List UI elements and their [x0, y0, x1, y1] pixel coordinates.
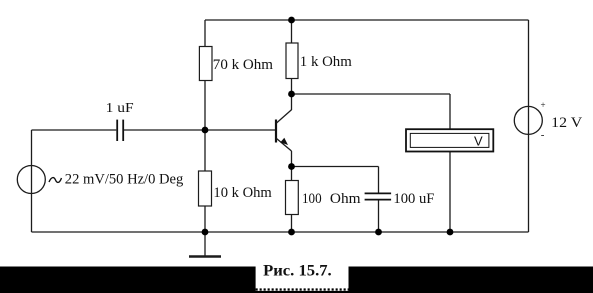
wire voltmeter vertical: [449, 94, 451, 232]
resistor R4 100: [286, 181, 361, 215]
node emitter junction: [288, 163, 295, 170]
svg-text:1 uF: 1 uF: [106, 101, 134, 116]
node voltmeter-bottom junction: [447, 229, 454, 236]
voltmeter V: [406, 129, 493, 151]
svg-text:+: +: [541, 100, 546, 110]
svg-text:22 mV/50 Hz/0 Deg: 22 mV/50 Hz/0 Deg: [65, 172, 184, 188]
svg-text:100 uF: 100 uF: [393, 191, 434, 207]
svg-text:70 k Ohm: 70 k Ohm: [213, 57, 274, 73]
transistor Q1: [276, 110, 292, 151]
capacitor C2 100uF: [365, 193, 392, 199]
wire input to capacitor C1: [32, 129, 117, 131]
caption box: [256, 267, 349, 291]
node ground junction: [202, 229, 209, 236]
wire capacitor C1 to base node: [124, 129, 276, 131]
node emitter-bottom junction: [288, 229, 295, 236]
node C2-bottom junction: [375, 229, 382, 236]
wire bias divider branch R1/R3: [204, 20, 206, 232]
caption highlight bar: [0, 267, 593, 293]
resistor R3 10k: [199, 171, 273, 206]
wire left branch (AC source): [31, 130, 33, 232]
svg-text:12 V: 12 V: [551, 115, 582, 131]
resistor R2 1k: [286, 43, 352, 79]
wire top rail: [205, 19, 529, 21]
ground: [189, 232, 221, 257]
svg-text:100: 100: [302, 191, 322, 207]
DC source 12V: [514, 100, 582, 141]
wire emitter to capacitor C2: [292, 166, 379, 168]
resistor R1 70k: [199, 47, 273, 81]
wire collector to voltmeter: [292, 93, 451, 95]
wire right branch (12V): [528, 20, 530, 232]
svg-text:V: V: [474, 134, 483, 149]
svg-text:-: -: [541, 129, 545, 141]
svg-text:10 k Ohm: 10 k Ohm: [213, 185, 272, 201]
node base junction: [202, 127, 209, 134]
node collector junction: [288, 91, 295, 98]
svg-text:1 k Ohm: 1 k Ohm: [300, 54, 352, 70]
node top junction: [288, 17, 295, 24]
AC source V1: [17, 166, 183, 194]
wire emitter branch: [291, 151, 293, 232]
wire C2 top lead: [378, 167, 380, 194]
wire collector branch R2: [291, 20, 293, 110]
svg-text:Ohm: Ohm: [330, 191, 361, 207]
capacitor C1 1uF: [117, 120, 123, 141]
wire C2 bottom lead: [378, 201, 380, 233]
svg-text:Рис. 15.7.: Рис. 15.7.: [263, 263, 332, 280]
caption dotted border: [256, 288, 349, 290]
wire bottom rail: [32, 231, 529, 233]
